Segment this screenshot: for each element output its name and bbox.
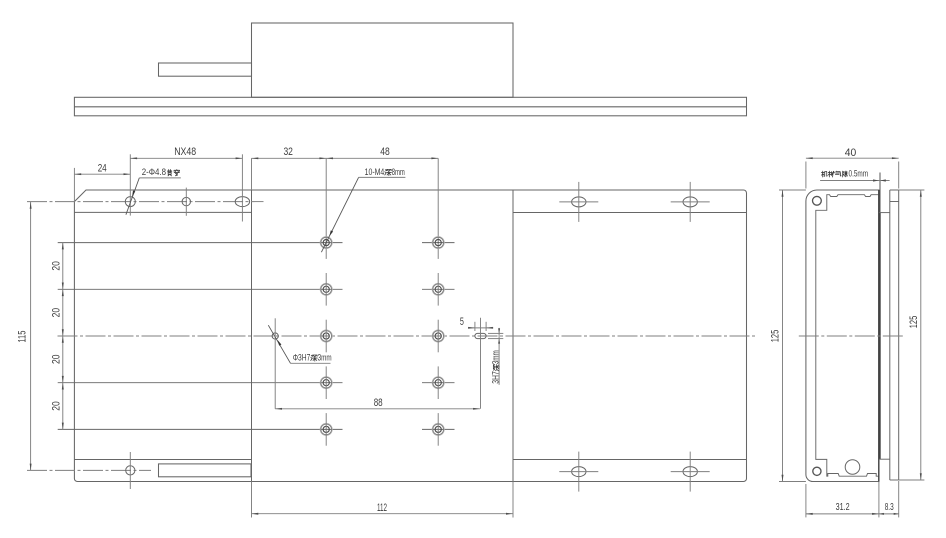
svg-text:20: 20 [50, 401, 62, 411]
svg-text:125: 125 [908, 316, 920, 329]
svg-text:8mm: 8mm [392, 167, 405, 177]
svg-text:32: 32 [283, 146, 293, 158]
svg-text:48: 48 [380, 146, 390, 158]
svg-text:20: 20 [50, 355, 62, 365]
svg-text:20: 20 [50, 261, 62, 271]
svg-text:125: 125 [770, 330, 782, 343]
svg-text:115: 115 [17, 331, 29, 343]
svg-text:3H7: 3H7 [491, 371, 501, 384]
svg-text:5: 5 [460, 316, 464, 328]
svg-text:3mm: 3mm [318, 353, 332, 363]
svg-text:31.2: 31.2 [836, 502, 850, 513]
svg-text:2-Φ4.8: 2-Φ4.8 [142, 167, 166, 177]
svg-text:20: 20 [50, 308, 62, 318]
svg-text:Φ3H7: Φ3H7 [293, 353, 311, 363]
svg-text:10-M4: 10-M4 [365, 167, 385, 177]
svg-text:8.3: 8.3 [885, 502, 894, 513]
svg-text:0.5mm: 0.5mm [849, 168, 869, 178]
svg-text:NX48: NX48 [174, 146, 196, 158]
svg-text:3mm: 3mm [491, 350, 501, 364]
svg-text:24: 24 [98, 163, 107, 175]
svg-text:40: 40 [845, 147, 857, 159]
svg-text:88: 88 [374, 397, 383, 409]
svg-text:112: 112 [377, 502, 387, 514]
